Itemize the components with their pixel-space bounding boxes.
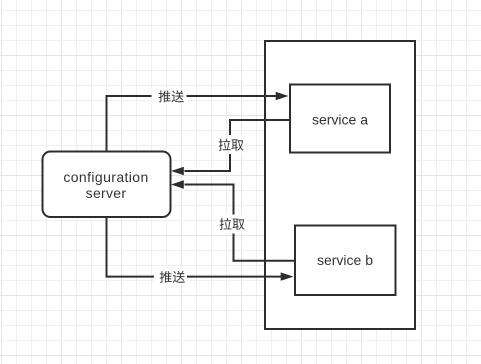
service b box <box>295 226 396 296</box>
arrowhead: pull into configuration server (upper) <box>171 167 184 175</box>
label 拉取 (pull, upper) <box>217 135 246 154</box>
arrowhead: pull into configuration server (lower) <box>171 180 184 188</box>
label 推送 (push, bottom) <box>154 269 187 285</box>
service a box <box>290 85 390 153</box>
svg-text:service b: service b <box>317 252 373 268</box>
wire: pull from service b to configuration server <box>185 185 296 261</box>
svg-text:service a: service a <box>312 112 368 128</box>
container box (outer rectangle around services) <box>265 41 415 329</box>
wire: push from configuration server bottom to service b <box>107 218 282 277</box>
svg-text:configuration: configuration <box>63 169 148 185</box>
wire: pull from service a to configuration server <box>185 120 291 171</box>
configuration server box <box>43 152 171 218</box>
arrowhead: push into service b <box>281 272 294 280</box>
svg-text:server: server <box>86 185 127 201</box>
label 推送 (push, top) <box>152 89 187 105</box>
label 拉取 (pull, lower) <box>218 215 247 234</box>
arrowhead: push into service a <box>276 92 289 100</box>
wire: push from configuration server top to service a <box>107 96 277 152</box>
